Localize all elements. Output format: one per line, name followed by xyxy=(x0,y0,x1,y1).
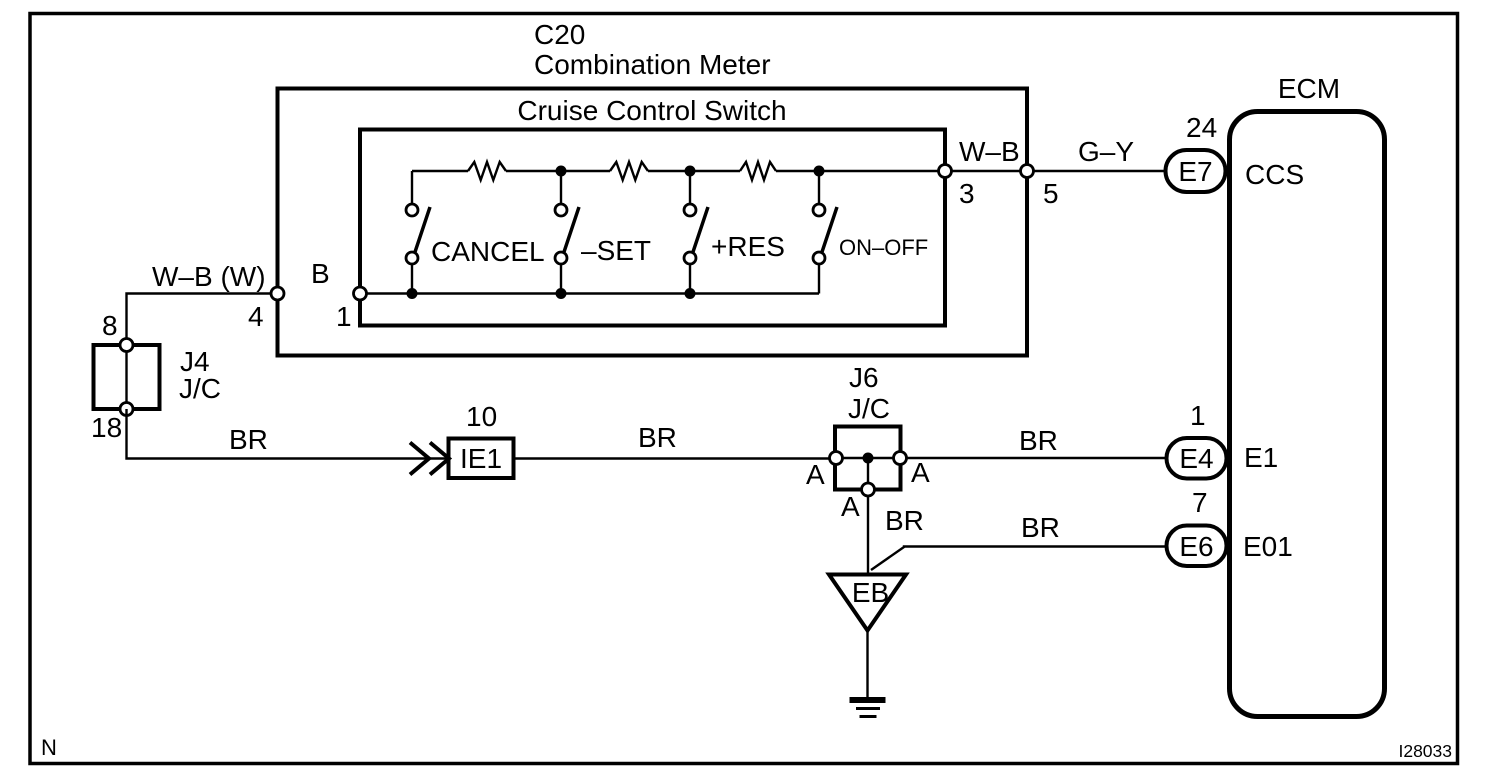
terminal 5 combination meter xyxy=(1021,165,1034,178)
junction J6 J/C xyxy=(835,427,901,490)
svg-text:J/C: J/C xyxy=(848,393,890,424)
terminal 1 cruise switch xyxy=(354,287,367,300)
terminal E6 xyxy=(1167,526,1227,567)
svg-text:24: 24 xyxy=(1186,112,1217,143)
ground symbol xyxy=(850,700,886,717)
svg-text:+RES: +RES xyxy=(711,231,785,262)
svg-text:–SET: –SET xyxy=(581,235,651,266)
svg-text:BR: BR xyxy=(1021,512,1060,543)
switch -SET xyxy=(555,171,579,294)
junction dot bottom bus CANCEL xyxy=(407,288,418,299)
junction dot J6 center xyxy=(863,453,874,464)
svg-text:IE1: IE1 xyxy=(460,443,502,474)
cruise control switch box xyxy=(360,130,945,326)
svg-text:1: 1 xyxy=(336,301,352,332)
svg-text:J6: J6 xyxy=(849,362,879,393)
wire top resistor bus xyxy=(412,170,1166,172)
label J4 J/C xyxy=(179,346,221,404)
junction dot top bus at ON-OFF xyxy=(814,166,825,177)
svg-text:E4: E4 xyxy=(1179,443,1213,474)
wire EB to ground xyxy=(866,630,868,698)
svg-text:B: B xyxy=(311,258,330,289)
pin A right of J6 xyxy=(894,452,907,465)
svg-text:4: 4 xyxy=(248,301,264,332)
svg-text:3: 3 xyxy=(959,178,975,209)
svg-text:8: 8 xyxy=(102,310,118,341)
wire bottom bus terminal 1 xyxy=(360,292,819,294)
svg-text:E7: E7 xyxy=(1178,156,1212,187)
svg-text:ON–OFF: ON–OFF xyxy=(839,235,928,260)
svg-text:Cruise Control Switch: Cruise Control Switch xyxy=(517,95,786,126)
svg-text:5: 5 xyxy=(1043,178,1059,209)
switch ON-OFF xyxy=(813,171,837,294)
svg-text:Combination Meter: Combination Meter xyxy=(534,49,771,80)
svg-text:BR: BR xyxy=(638,422,677,453)
svg-text:N: N xyxy=(41,735,57,760)
svg-text:A: A xyxy=(806,459,825,490)
svg-text:CANCEL: CANCEL xyxy=(431,236,545,267)
svg-text:BR: BR xyxy=(885,505,924,536)
ground point EB triangle xyxy=(829,575,906,631)
pin A bottom of J6 xyxy=(862,483,875,496)
switch +RES xyxy=(684,171,708,294)
harness arrow chevrons xyxy=(410,443,449,475)
svg-text:E6: E6 xyxy=(1179,531,1213,562)
junction dot top bus at RES xyxy=(685,166,696,177)
junction dot top bus at SET xyxy=(556,166,567,177)
svg-text:CCS: CCS xyxy=(1245,159,1304,190)
svg-text:10: 10 xyxy=(466,401,497,432)
wire BR J6 to E4 xyxy=(907,457,1167,459)
terminal E7 xyxy=(1166,150,1226,192)
terminal 3 cruise switch xyxy=(939,165,952,178)
svg-text:ECM: ECM xyxy=(1278,73,1340,104)
pin 8 of J4 xyxy=(120,339,133,352)
svg-text:W–B (W): W–B (W) xyxy=(152,261,266,292)
svg-text:EB: EB xyxy=(852,577,889,608)
svg-text:C20: C20 xyxy=(534,19,585,50)
connector IE1 xyxy=(449,439,514,479)
wire BR J4 to IE1 xyxy=(127,409,449,459)
ECM box xyxy=(1230,112,1385,717)
junction dot bottom bus SET xyxy=(556,288,567,299)
resistor (RES to ON-OFF) xyxy=(740,162,776,180)
junction dot bottom bus RES xyxy=(685,288,696,299)
svg-text:A: A xyxy=(911,457,930,488)
junction J4 J/C xyxy=(94,345,160,409)
wire BR IE1 to J6 xyxy=(514,457,836,459)
svg-text:I28033: I28033 xyxy=(1398,741,1452,761)
svg-text:W–B: W–B xyxy=(959,136,1020,167)
terminal 4 combination meter xyxy=(271,287,284,300)
svg-text:7: 7 xyxy=(1192,487,1208,518)
label C20 Combination Meter xyxy=(534,19,771,80)
label J6 J/C xyxy=(848,362,890,424)
wire W-B (W) from terminal 4 to J4 xyxy=(127,294,278,346)
svg-text:E01: E01 xyxy=(1243,531,1293,562)
resistor (CANCEL to SET) xyxy=(468,162,506,180)
pin 18 of J4 xyxy=(120,403,133,416)
terminal E4 xyxy=(1167,438,1227,479)
resistor (SET to RES) xyxy=(610,162,648,180)
switch CANCEL xyxy=(406,171,430,294)
svg-text:18: 18 xyxy=(91,412,122,443)
pin A left of J6 xyxy=(830,452,843,465)
svg-text:E1: E1 xyxy=(1244,442,1278,473)
svg-text:1: 1 xyxy=(1190,400,1206,431)
wire BR EB to E6 xyxy=(871,547,1167,571)
svg-text:J/C: J/C xyxy=(179,373,221,404)
svg-text:BR: BR xyxy=(229,424,268,455)
wire BR J6 to EB xyxy=(867,497,869,575)
svg-text:A: A xyxy=(841,491,860,522)
svg-text:G–Y: G–Y xyxy=(1078,136,1134,167)
connector box C20 Combination Meter xyxy=(278,89,1028,356)
svg-text:BR: BR xyxy=(1019,425,1058,456)
